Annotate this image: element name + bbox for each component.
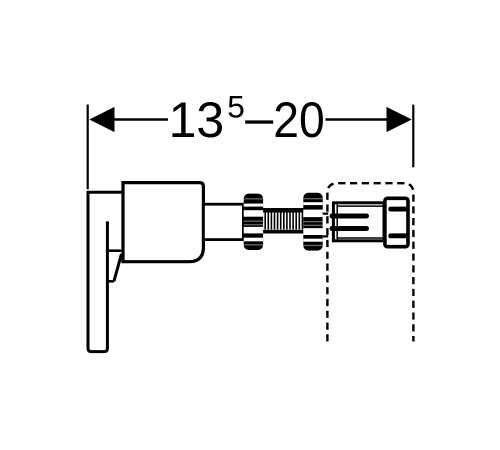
lever handle [88,192,123,351]
body [123,183,203,262]
stem wedge diagonal [114,254,122,281]
rod end tab [323,213,329,238]
fitting inner bottom line [337,237,382,239]
threaded rod hatching [265,212,302,229]
stem tick lower [107,280,114,283]
fitting cap [385,198,408,246]
dimension line left segment [112,118,168,121]
svg-text:13: 13 [169,92,225,148]
dimension extension line left [87,105,89,190]
threaded rod top line [263,208,305,213]
stem tick upper [107,249,121,252]
dimension arrow right [387,107,412,132]
dimension text dash [245,120,273,123]
fitting prong lower [330,226,370,231]
cap bar lower [388,233,407,238]
cap bar upper [388,207,407,212]
dimension arrow left [89,107,114,132]
fitting inner vertical line [336,204,338,239]
fitting body [333,203,384,241]
threaded rod bottom line [263,230,305,234]
dashed wall box [327,183,413,341]
svg-text:20: 20 [273,92,325,148]
fitting prong upper [330,214,370,219]
knurled nut 2 [303,193,322,251]
dimension extension line right [412,105,414,168]
neck [203,204,243,239]
fitting inner top line [337,205,382,207]
dimension line right segment [326,118,390,121]
knurled nut 1 [244,194,263,250]
svg-text:5: 5 [227,88,245,124]
